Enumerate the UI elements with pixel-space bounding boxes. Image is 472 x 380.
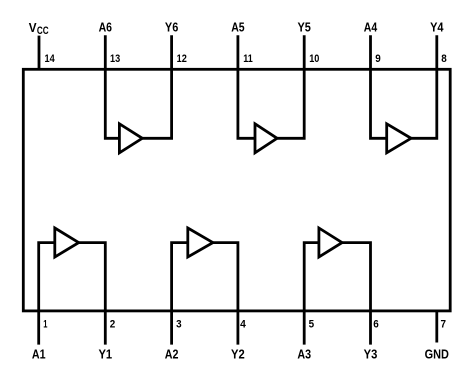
svg-text:A5: A5: [231, 19, 244, 34]
wire pin7 GND stub: [435, 311, 438, 343]
wire pin14 VCC stub: [38, 36, 41, 70]
svg-text:11: 11: [243, 53, 253, 65]
svg-text:9: 9: [375, 53, 381, 65]
wire pin6 Y3 output from buffer 3: [342, 243, 370, 345]
svg-text:7: 7: [441, 319, 447, 331]
svg-text:A6: A6: [99, 19, 112, 34]
wire pin12 Y6 output from buffer 6: [142, 35, 171, 138]
svg-text:Y2: Y2: [231, 347, 245, 362]
svg-text:Y3: Y3: [364, 347, 378, 362]
buffer gate U1 (A1 to Y1): [55, 228, 79, 257]
svg-text:12: 12: [177, 53, 187, 65]
wire pin1 A1 input to buffer 1: [39, 243, 55, 345]
buffer gate U4 (A4 to Y4): [387, 124, 411, 153]
svg-text:3: 3: [176, 319, 182, 331]
svg-text:10: 10: [309, 53, 319, 65]
buffer gate U5 (A5 to Y5): [255, 124, 277, 153]
svg-text:A2: A2: [165, 347, 179, 362]
svg-text:14: 14: [45, 53, 56, 65]
wire pin13 A6 input to buffer 6: [105, 35, 119, 138]
wire pin3 A2 input to buffer 2: [172, 243, 188, 345]
svg-text:Y6: Y6: [165, 19, 178, 34]
svg-text:GND: GND: [425, 347, 449, 362]
svg-text:V: V: [29, 20, 37, 35]
svg-text:Y1: Y1: [98, 347, 112, 362]
svg-text:4: 4: [240, 319, 247, 331]
wire pin9 A4 input to buffer 4: [371, 35, 387, 138]
svg-text:13: 13: [110, 53, 120, 65]
svg-text:A3: A3: [297, 347, 311, 362]
buffer gate U6 (A6 to Y6): [119, 124, 142, 153]
buffer gate U2 (A2 to Y2): [188, 228, 213, 257]
svg-text:2: 2: [110, 319, 116, 331]
buffer gate U3 (A3 to Y3): [319, 228, 342, 257]
IC package outline: [23, 69, 450, 311]
svg-text:Y5: Y5: [298, 19, 311, 34]
svg-text:A1: A1: [32, 347, 46, 362]
svg-text:6: 6: [373, 319, 379, 331]
wire pin8 Y4 output from buffer 4: [411, 35, 437, 138]
svg-text:1: 1: [43, 319, 47, 331]
wire pin5 A3 input to buffer 3: [304, 243, 319, 345]
wire pin2 Y1 output from buffer 1: [79, 243, 106, 345]
wire pin11 A5 input to buffer 5: [238, 35, 255, 138]
wire pin4 Y2 output from buffer 2: [213, 243, 238, 345]
node VCC label: [29, 20, 49, 37]
wire pin10 Y5 output from buffer 5: [277, 35, 304, 138]
svg-text:5: 5: [309, 319, 315, 331]
svg-text:Y4: Y4: [430, 19, 444, 34]
svg-text:A4: A4: [364, 19, 378, 34]
svg-text:8: 8: [441, 53, 447, 65]
svg-text:CC: CC: [37, 25, 49, 37]
